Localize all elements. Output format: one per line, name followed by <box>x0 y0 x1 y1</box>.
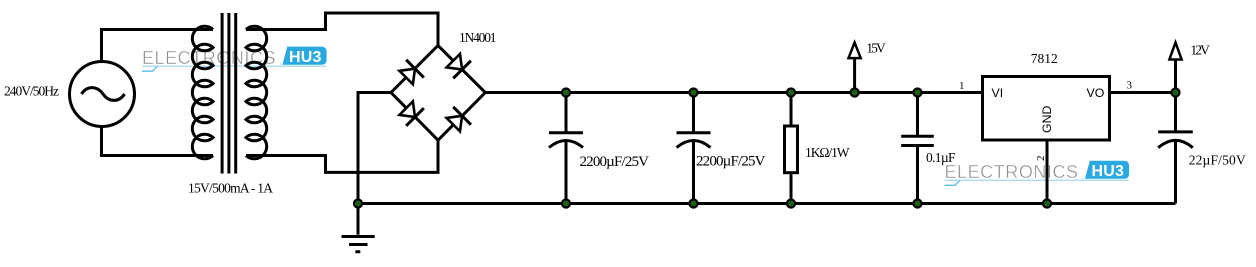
watermark ELECTRONICS HUB (bottom-right) <box>945 161 1130 186</box>
node C1 bottom <box>562 199 570 207</box>
15V net arrow <box>853 58 856 93</box>
svg-text:GND: GND <box>1040 106 1054 133</box>
wire bridge left vertex to ground junction <box>358 93 391 235</box>
svg-text:15V/500mA - 1A: 15V/500mA - 1A <box>188 181 273 196</box>
watermark ELECTRONICS HUB (top-left) <box>142 47 327 72</box>
svg-text:240V/50Hz: 240V/50Hz <box>4 84 59 99</box>
transformer T1 secondary winding <box>246 26 267 159</box>
AC source V1 circle <box>70 62 135 127</box>
wire top positive rail <box>485 91 981 94</box>
svg-text:22µF/50V: 22µF/50V <box>1189 153 1246 168</box>
wire primary bottom <box>102 127 214 156</box>
capacitor C1 2200uF/25V <box>565 93 568 135</box>
diode D3 (left-bottom) <box>397 99 424 126</box>
capacitor C3 0.1uF <box>916 93 919 137</box>
node R1 top <box>787 88 795 96</box>
node C3 bottom <box>913 199 921 207</box>
svg-text:2200µF/25V: 2200µF/25V <box>696 154 766 170</box>
transformer T1 core lines <box>222 13 236 174</box>
svg-text:1KΩ/1W: 1KΩ/1W <box>805 145 850 160</box>
wire bottom rail <box>358 202 1176 205</box>
bridge diamond edges <box>391 46 485 141</box>
resistor R1 <box>790 93 793 204</box>
svg-text:0.1µF: 0.1µF <box>926 150 956 165</box>
ground symbol <box>342 237 375 252</box>
svg-text:7812: 7812 <box>1031 51 1058 66</box>
svg-text:2200µF/25V: 2200µF/25V <box>580 154 650 170</box>
node C1 top <box>562 88 570 96</box>
diode D1 (left-top) <box>397 60 424 87</box>
node GND pin junction <box>1043 199 1051 207</box>
regulator U1 7812 box <box>983 77 1110 141</box>
node ground junction <box>354 199 362 207</box>
AC source sine symbol <box>82 88 125 101</box>
svg-text:12V: 12V <box>1190 43 1210 58</box>
12V net arrow <box>1174 59 1177 93</box>
wire secondary bottom to bridge <box>246 140 438 172</box>
svg-text:15V: 15V <box>866 41 886 56</box>
svg-text:VO: VO <box>1087 86 1105 100</box>
node C2 top <box>689 88 697 96</box>
node 12V output <box>1171 88 1179 96</box>
svg-text:VI: VI <box>992 86 1004 100</box>
capacitor C4 22uF/50V <box>1174 93 1177 134</box>
svg-text:3: 3 <box>1127 80 1133 92</box>
node 15V tap <box>851 88 859 96</box>
wire primary top <box>102 30 214 62</box>
svg-text:2: 2 <box>1035 156 1047 162</box>
node C3 top <box>913 88 921 96</box>
diode D2 (top-right) <box>444 52 471 79</box>
wire regulator pin2 to bottom rail <box>1046 142 1049 204</box>
node C2 bottom <box>689 199 697 207</box>
wire regulator VO to output <box>1111 91 1176 94</box>
svg-text:1N4001: 1N4001 <box>459 30 497 45</box>
svg-text:1: 1 <box>959 80 965 92</box>
capacitor C2 2200uF/25V <box>692 93 695 135</box>
node R1 bottom <box>787 199 795 207</box>
diode D4 (bottom-right) <box>444 107 471 134</box>
transformer T1 primary winding <box>192 26 213 159</box>
wire secondary top to bridge <box>246 13 438 46</box>
